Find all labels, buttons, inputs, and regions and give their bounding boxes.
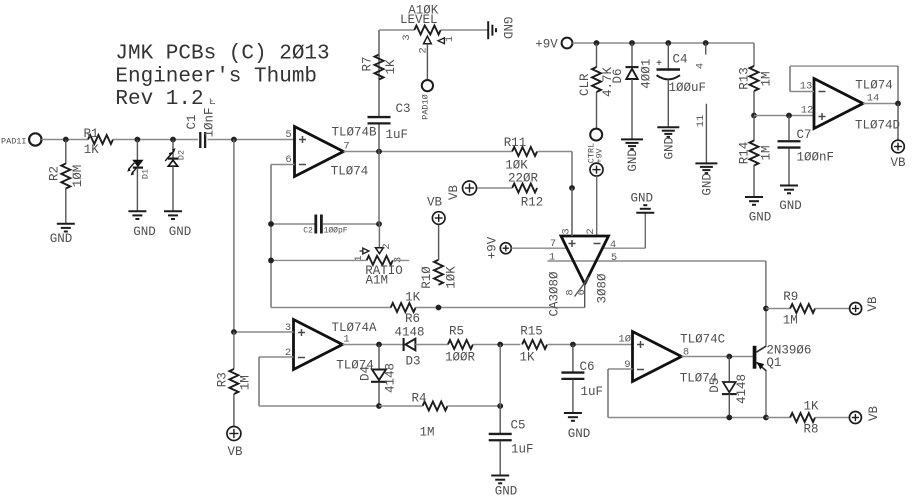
- resistor R11: [512, 147, 537, 156]
- svg-text:4: 4: [694, 63, 706, 69]
- ground C7: [780, 185, 798, 187]
- pad PAD1 input: [29, 133, 41, 145]
- resistor R13: [753, 43, 755, 66]
- junction D4 bottom: [376, 403, 382, 409]
- svg-text:1ØØR: 1ØØR: [445, 351, 476, 365]
- junction node A: [231, 137, 237, 143]
- svg-text:LEVEL: LEVEL: [400, 13, 438, 27]
- svg-text:7: 7: [343, 141, 349, 153]
- svg-text:TLØ74: TLØ74: [855, 79, 893, 93]
- wire pin1-5 row: [548, 260, 766, 262]
- svg-text:GND: GND: [50, 232, 73, 246]
- svg-text:4148: 4148: [383, 363, 397, 393]
- svg-text:PAD1I: PAD1I: [1, 136, 27, 146]
- junction output A / D4: [376, 342, 382, 348]
- capacitor C1: [199, 132, 201, 148]
- wire pin3: [234, 331, 294, 333]
- capacitor C3: [378, 124, 380, 152]
- svg-text:1: 1: [343, 334, 349, 346]
- svg-text:4ØØ1: 4ØØ1: [639, 59, 653, 89]
- svg-text:1M: 1M: [759, 71, 773, 86]
- diode D6 4001: [631, 43, 633, 67]
- pad +9V: [562, 38, 573, 49]
- svg-text:GND: GND: [631, 192, 654, 206]
- svg-text:VB: VB: [447, 185, 461, 201]
- svg-text:1: 1: [444, 36, 456, 42]
- power VB (R3): [227, 427, 241, 441]
- wire output C: [682, 356, 753, 358]
- ground D6: [621, 138, 643, 140]
- svg-text:GND: GND: [779, 199, 802, 213]
- power VB (R10): [432, 212, 445, 225]
- wire output D to VB: [897, 104, 899, 140]
- svg-text:JMK PCBs (C) 2Ø13: JMK PCBs (C) 2Ø13: [115, 43, 329, 66]
- svg-text:4: 4: [610, 239, 616, 251]
- junction D1: [135, 137, 141, 143]
- junction D5: [726, 354, 732, 360]
- resistor R6: [391, 303, 416, 312]
- svg-text:GND: GND: [749, 211, 772, 225]
- power VB (R12): [463, 181, 477, 195]
- junction R4-C5: [497, 403, 503, 409]
- resistor R5: [448, 340, 473, 349]
- svg-text:1ØK: 1ØK: [505, 158, 528, 172]
- svg-text:C3: C3: [396, 102, 411, 116]
- junction input-R2: [63, 137, 69, 143]
- svg-text:R7: R7: [360, 56, 374, 71]
- op-amp U1C TL074C: [633, 332, 682, 382]
- wire C1 to opamp: [208, 139, 295, 141]
- wire pin4 to gnd: [602, 247, 645, 249]
- diode D4 4148: [378, 345, 380, 370]
- junction emitter-R8: [763, 415, 769, 421]
- pin 4 power stub: [705, 43, 707, 55]
- svg-text:7: 7: [550, 238, 556, 250]
- wire pin9 feedback C: [608, 368, 633, 370]
- svg-text:6: 6: [576, 289, 588, 295]
- svg-text:C2: C2: [303, 227, 313, 236]
- svg-text:Q1: Q1: [766, 356, 781, 370]
- junction output D: [895, 101, 901, 107]
- svg-text:1ØØnF: 1ØØnF: [797, 151, 835, 165]
- wire input row: [42, 139, 89, 141]
- resistor R14: [753, 116, 755, 142]
- svg-text:+9V: +9V: [485, 236, 499, 259]
- svg-text:+: +: [656, 59, 662, 70]
- capacitor C6: [572, 345, 574, 372]
- ground R14: [745, 196, 763, 198]
- svg-text:1ØØpF: 1ØØpF: [324, 227, 348, 236]
- svg-text:C7: C7: [797, 128, 812, 142]
- svg-text:+9V: +9V: [594, 147, 604, 163]
- svg-text:5: 5: [611, 252, 617, 264]
- ground C5: [491, 475, 509, 477]
- svg-text:4148: 4148: [394, 326, 424, 340]
- ground pin11: [695, 162, 717, 164]
- svg-text:R4: R4: [411, 391, 426, 405]
- svg-text:GND: GND: [568, 427, 591, 441]
- wire output B down to RATIO wiper: [378, 152, 380, 225]
- wire pin3 from R12 junction: [571, 188, 573, 236]
- svg-text:1K: 1K: [84, 143, 100, 157]
- svg-text:TLØ74: TLØ74: [331, 164, 369, 178]
- junction D5 bottom: [726, 415, 732, 421]
- junction rail D6: [629, 40, 635, 46]
- svg-text:2: 2: [417, 47, 429, 53]
- power +9V (CA3080 pin7): [500, 243, 511, 254]
- svg-text:3: 3: [401, 34, 413, 40]
- svg-text:TLØ74B: TLØ74B: [331, 125, 377, 139]
- wire pin6 feedback: [271, 164, 295, 166]
- wire R3 to VB: [233, 394, 235, 427]
- ground pin4 (inverted): [643, 204, 647, 206]
- resistor R7: [378, 56, 380, 116]
- junction RATIO-feedback: [268, 258, 274, 264]
- junction C2 right: [376, 221, 382, 227]
- wire R6 row: [271, 307, 391, 309]
- svg-text:R6: R6: [405, 312, 420, 326]
- svg-text:1uF: 1uF: [386, 128, 409, 142]
- junction C7: [786, 113, 792, 119]
- junction rail C4: [665, 40, 671, 46]
- wire node A down to TL074A: [233, 140, 235, 333]
- svg-text:1uF: 1uF: [511, 443, 534, 457]
- svg-text:14: 14: [867, 93, 880, 105]
- svg-text:1K: 1K: [384, 59, 398, 75]
- svg-text:VB: VB: [427, 196, 443, 210]
- ground LEVEL: [487, 21, 489, 39]
- op-amp U1B TL074B: [295, 127, 344, 177]
- pad CTRL: [590, 129, 602, 141]
- diode D5 4148: [728, 357, 730, 383]
- svg-text:TLØ74D: TLØ74D: [855, 119, 900, 133]
- svg-text:12: 12: [801, 105, 814, 117]
- junction R11-R12: [569, 185, 575, 191]
- junction rail pin4: [703, 40, 709, 46]
- svg-text:R1: R1: [83, 127, 98, 141]
- resistor R15: [522, 340, 547, 349]
- svg-text:GND: GND: [500, 16, 514, 39]
- CA3080 triangle: [561, 236, 609, 284]
- potentiometer RATIO A1M: [367, 256, 393, 265]
- svg-text:VB: VB: [890, 156, 906, 170]
- svg-text:3: 3: [560, 228, 572, 234]
- pin 11 power stub: [705, 104, 707, 164]
- svg-text:+9V: +9V: [535, 38, 558, 52]
- resistor R8: [766, 417, 790, 419]
- junction R5-C5-R15: [497, 342, 503, 348]
- svg-text:D5: D5: [708, 378, 722, 393]
- wire collector: [765, 309, 767, 346]
- pin 6 wire: [584, 284, 586, 308]
- svg-text:11: 11: [695, 115, 707, 128]
- svg-text:R14: R14: [737, 142, 751, 165]
- svg-text:1M: 1M: [783, 314, 798, 328]
- junction C6: [570, 342, 576, 348]
- svg-text:3Ø8Ø: 3Ø8Ø: [595, 273, 609, 304]
- svg-text:1M: 1M: [238, 375, 252, 390]
- power VB (R8): [849, 412, 861, 424]
- LED D2: [172, 140, 174, 159]
- svg-text:R8: R8: [803, 423, 818, 437]
- svg-text:GND: GND: [133, 225, 156, 239]
- svg-text:4148: 4148: [735, 374, 749, 404]
- svg-text:2: 2: [585, 228, 597, 234]
- junction R9: [763, 306, 769, 312]
- svg-text:R9: R9: [783, 290, 798, 304]
- wire pin12 row: [754, 115, 814, 117]
- svg-text:CA3Ø8Ø: CA3Ø8Ø: [547, 271, 561, 317]
- svg-text:1M: 1M: [419, 425, 434, 439]
- power VB (TL074D): [892, 140, 905, 153]
- pin 8 stub: [575, 277, 590, 297]
- junction rail CLR: [594, 40, 600, 46]
- ground D1: [128, 210, 146, 212]
- svg-text:VB: VB: [866, 296, 880, 312]
- power VB (CTRL): [590, 163, 603, 176]
- svg-text:R1Ø: R1Ø: [420, 266, 434, 289]
- junction D2: [170, 137, 176, 143]
- resistor R2: [65, 140, 67, 165]
- resistor CLR 4.7K: [596, 43, 598, 68]
- potentiometer LEVEL A10K: [414, 26, 440, 35]
- wire pin13 feedback: [790, 91, 814, 93]
- svg-text:VB: VB: [227, 445, 243, 459]
- wire LEVEL to gnd: [441, 29, 488, 31]
- wire pin2 feedback A: [259, 356, 294, 358]
- ground D2: [164, 210, 182, 212]
- wire R12 left to VB: [477, 187, 513, 189]
- svg-text:2: 2: [381, 243, 393, 249]
- wire R15 to TL074C: [548, 344, 633, 346]
- svg-text:Engineer's Thumb: Engineer's Thumb: [115, 66, 317, 89]
- resistor R4: [423, 402, 448, 411]
- LED D1: [136, 140, 138, 161]
- svg-text:C1: C1: [185, 114, 199, 129]
- svg-text:GND: GND: [662, 137, 676, 160]
- capacitor C4 100uF: [667, 43, 669, 69]
- capacitor C5: [499, 406, 501, 433]
- wire D1 to gnd: [136, 168, 138, 212]
- junction C2 left: [268, 221, 274, 227]
- svg-text:1K: 1K: [519, 351, 535, 365]
- svg-text:1ØM: 1ØM: [71, 165, 85, 188]
- power VB (R9): [850, 303, 862, 315]
- svg-text:1ØØuF: 1ØØuF: [669, 81, 707, 95]
- wire R7 to LEVEL: [378, 30, 380, 57]
- wire RATIO pin3 stub: [393, 259, 409, 261]
- svg-text:1ØK: 1ØK: [444, 266, 458, 289]
- svg-text:1K: 1K: [803, 400, 819, 414]
- resistor R12: [512, 184, 537, 193]
- wire output A: [343, 344, 403, 346]
- svg-text:D3: D3: [405, 355, 420, 369]
- wire output D: [863, 103, 898, 105]
- svg-text:R13: R13: [737, 67, 751, 90]
- wire D2 to gnd: [172, 166, 174, 211]
- wire R10 to VB: [438, 224, 440, 260]
- svg-text:1Ø: 1Ø: [618, 334, 631, 346]
- junction R6-R10: [436, 305, 442, 311]
- svg-text:1M: 1M: [759, 145, 773, 160]
- svg-text:13: 13: [800, 81, 813, 93]
- ground R2: [57, 223, 75, 225]
- svg-text:R5: R5: [449, 324, 464, 338]
- ground C6: [564, 412, 582, 414]
- svg-text:Rev 1.2: Rev 1.2: [115, 88, 203, 111]
- svg-text:GND: GND: [495, 485, 518, 499]
- transistor Q1 2N3906: [753, 346, 757, 369]
- wire CTRL to pin2: [596, 176, 598, 236]
- junction output B / C3: [376, 149, 382, 155]
- capacitor C7 100nF: [788, 116, 790, 141]
- svg-text:C6: C6: [580, 360, 595, 374]
- ground C4: [657, 126, 679, 128]
- svg-text:GND: GND: [626, 149, 640, 172]
- svg-text:TLØ74C: TLØ74C: [680, 333, 725, 347]
- wire emitter: [765, 371, 767, 418]
- svg-text:A1M: A1M: [366, 273, 389, 287]
- svg-text:D4: D4: [358, 366, 372, 381]
- wire RATIO pin1 left: [271, 259, 367, 261]
- svg-text:22ØR: 22ØR: [508, 172, 539, 186]
- wire R5 to R15: [473, 344, 520, 346]
- wire R11 right: [537, 151, 572, 153]
- wire D3 to R5: [415, 344, 447, 346]
- svg-text:D2: D2: [176, 150, 186, 160]
- svg-text:CLR: CLR: [578, 73, 592, 96]
- svg-text:R12: R12: [521, 196, 544, 210]
- junction R13-R14-pin12: [751, 113, 757, 119]
- wire pin7: [511, 247, 567, 249]
- svg-text:R11: R11: [504, 136, 527, 150]
- resistor R1: [88, 135, 113, 144]
- wire pin5 down to collector: [765, 261, 767, 309]
- svg-text:R15: R15: [520, 324, 543, 338]
- svg-text:C4: C4: [673, 53, 688, 67]
- svg-text:8: 8: [564, 289, 576, 295]
- wire R1 to C1: [113, 139, 198, 141]
- svg-text:GND: GND: [169, 225, 192, 239]
- wire C5 column: [499, 345, 501, 407]
- svg-text:TLØ74A: TLØ74A: [331, 321, 377, 335]
- svg-text:C5: C5: [511, 419, 526, 433]
- svg-text:D1: D1: [140, 169, 150, 179]
- op-amp U1A TL074A: [294, 320, 343, 370]
- svg-text:D6: D6: [611, 68, 625, 83]
- wire output TL074B: [344, 151, 512, 153]
- svg-text:PAD1Ø: PAD1Ø: [420, 94, 430, 120]
- svg-text:5: 5: [285, 129, 291, 141]
- pad PAD10: [422, 80, 433, 91]
- capacitor C2: [271, 223, 315, 225]
- svg-text:R2: R2: [47, 166, 61, 181]
- resistor R3: [233, 332, 235, 369]
- junction pin3 node: [231, 329, 237, 335]
- svg-text:1ØnF: 1ØnF: [202, 107, 216, 137]
- svg-text:R3: R3: [215, 372, 229, 387]
- svg-text:1uF: 1uF: [581, 385, 604, 399]
- resistor R9: [766, 308, 790, 310]
- wire R2 to gnd: [65, 188, 67, 224]
- diode D3 4148: [403, 338, 405, 351]
- op-amp U1D TL074D: [814, 79, 863, 129]
- resistor R10: [434, 260, 443, 285]
- svg-text:1K: 1K: [405, 291, 421, 305]
- wire +9V rail: [572, 42, 754, 44]
- svg-text:1: 1: [549, 251, 555, 263]
- svg-text:VB: VB: [867, 406, 881, 422]
- svg-text:GND: GND: [701, 173, 715, 196]
